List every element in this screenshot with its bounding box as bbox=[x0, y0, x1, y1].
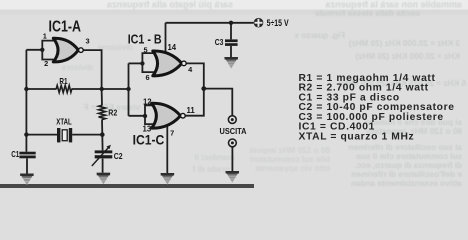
svg-text:mandoci il: mandoci il bbox=[195, 153, 236, 162]
svg-text:al suo oscillatore di riferime: al suo oscillatore di riferimen bbox=[348, 143, 462, 152]
capacitor C1 bbox=[19, 152, 35, 159]
wire: IC1-C output riser bbox=[185, 89, 204, 116]
wire: IC1-A output to node bbox=[83, 50, 102, 89]
svg-text:2: 2 bbox=[44, 59, 48, 68]
svg-text:KHz = 20.000 KHz (20 MHz): KHz = 20.000 KHz (20 MHz) bbox=[355, 52, 460, 61]
ground under C3 bbox=[224, 57, 238, 69]
ground under C1 bbox=[20, 174, 34, 186]
svg-text:C2: C2 bbox=[114, 152, 123, 161]
NOR gate IC1-B (CD4001, pins 5,6,4) bbox=[153, 51, 186, 76]
node: XTAL right junction bbox=[100, 132, 105, 137]
ground under USCITA bbox=[225, 171, 239, 183]
wire: IC1-A input feed bbox=[26, 49, 42, 51]
ground under C2 bbox=[96, 173, 110, 185]
resistor R2 bbox=[99, 105, 106, 119]
svg-text:e dell'oscillatore di riferime: e dell'oscillatore di riferimen bbox=[351, 170, 462, 179]
svg-text:C3: C3 bbox=[215, 38, 224, 47]
terminal USCITA lower bbox=[229, 139, 237, 147]
terminal USCITA upper bbox=[228, 116, 236, 124]
ground pin7 bbox=[160, 173, 174, 185]
wire: IC1-C input bracket bbox=[145, 105, 157, 126]
svg-text:11: 11 bbox=[186, 106, 195, 115]
NOR gate IC1-A (CD4001, pins 1,2,3) bbox=[53, 38, 83, 62]
svg-text:XTAL = quarzo 1 MHz: XTAL = quarzo 1 MHz bbox=[299, 131, 415, 142]
node: R1 left junction bbox=[24, 87, 28, 91]
svg-text:7: 7 bbox=[170, 128, 174, 137]
node: XTAL left junction bbox=[24, 132, 28, 136]
svg-text:12: 12 bbox=[143, 98, 152, 107]
svg-text:sul commutatore che il suo: sul commutatore che il suo bbox=[356, 152, 462, 161]
svg-text:Fig. quarzo x: Fig. quarzo x bbox=[294, 31, 345, 40]
wire: IC1-A input bracket bbox=[42, 40, 57, 61]
node: IC1-A input junction bbox=[40, 48, 44, 52]
svg-text:R1: R1 bbox=[59, 77, 68, 86]
svg-text:XTAL: XTAL bbox=[56, 118, 72, 127]
capacitor C3 bbox=[225, 39, 238, 46]
svg-text:13: 13 bbox=[143, 125, 152, 134]
wire: pin7 ground drop bbox=[166, 126, 168, 173]
svg-text:IC1-C: IC1-C bbox=[133, 133, 165, 148]
IC1-B output inversion bubble bbox=[182, 61, 187, 66]
svg-text:3: 3 bbox=[86, 37, 90, 46]
svg-text:uscita dalla stessa formula: uscita dalla stessa formula bbox=[315, 9, 420, 18]
wire: B/C input vertical bbox=[128, 63, 130, 115]
wire: XTAL net bbox=[26, 134, 102, 136]
wire: left rail bbox=[25, 50, 27, 152]
wire: C2 drop bbox=[101, 135, 103, 173]
node: C3 supply junction bbox=[229, 21, 233, 25]
wire: IC1-B input bracket bbox=[142, 52, 157, 73]
wire: power rail bbox=[166, 22, 254, 24]
svg-text:sarà più legato alla frequenza: sarà più legato alla frequenza bbox=[106, 0, 233, 10]
wire: USCITA lower terminal to ground bbox=[231, 147, 233, 171]
svg-text:IC1-A: IC1-A bbox=[49, 18, 82, 35]
wire: IC1-B output bbox=[186, 63, 204, 88]
wire: C3 drop bbox=[230, 23, 232, 57]
svg-text:divisore: divisore bbox=[61, 63, 93, 72]
svg-text:3 KHz = 20.000 KHz (20 MHz): 3 KHz = 20.000 KHz (20 MHz) bbox=[348, 39, 460, 48]
svg-text:R2: R2 bbox=[108, 109, 117, 118]
svg-text:attivo essenzialmente andan: attivo essenzialmente andan bbox=[351, 179, 462, 188]
power terminal +5..15V bbox=[254, 18, 264, 28]
IC1-A output inversion bubble bbox=[79, 48, 84, 53]
NOR gate IC1-C (CD4001, pins 12,13,11) bbox=[152, 103, 186, 128]
node: B/C input tee junction bbox=[126, 87, 130, 91]
svg-text:6: 6 bbox=[146, 73, 150, 82]
svg-text:otto vio spyamente: otto vio spyamente bbox=[255, 164, 330, 173]
wire: pin14 supply drop bbox=[165, 23, 167, 53]
parts list bbox=[299, 73, 455, 142]
svg-text:grado di f: grado di f bbox=[192, 165, 230, 174]
resistor R1 bbox=[56, 85, 72, 92]
svg-text:IC1 - B: IC1 - B bbox=[128, 31, 162, 46]
svg-text:di frequenza di quarzo, ecc.: di frequenza di quarzo, ecc. bbox=[355, 161, 462, 170]
node: IC1-C input junction bbox=[143, 114, 147, 118]
svg-text:80 o 120 MHz impost: 80 o 120 MHz impost bbox=[249, 146, 330, 155]
wire: C1 drop bbox=[25, 152, 28, 174]
IC1-C output inversion bubble bbox=[181, 113, 186, 118]
svg-text:bile sul commutatori: bile sul commutatori bbox=[250, 155, 330, 164]
svg-text:5÷15 V: 5÷15 V bbox=[267, 17, 290, 28]
wire: R2 vertical bbox=[101, 89, 104, 135]
svg-text:1: 1 bbox=[43, 31, 47, 40]
wire: R1 horizontal net bbox=[26, 88, 128, 90]
bottom border line bbox=[0, 184, 254, 188]
svg-text:5: 5 bbox=[144, 46, 148, 55]
node: IC1-B input junction bbox=[140, 61, 144, 65]
svg-text:C1: C1 bbox=[11, 150, 19, 159]
node: R1 right / pin3 junction bbox=[100, 87, 104, 91]
svg-text:14: 14 bbox=[167, 43, 176, 52]
crystal XTAL bbox=[57, 128, 72, 142]
capacitor C2 (trimmer) bbox=[92, 145, 112, 166]
node: output junction bbox=[201, 86, 206, 91]
wire: IC1-B input feed bbox=[129, 62, 143, 64]
bleed-through ghost text bbox=[61, 0, 466, 188]
wire: output node to USCITA bbox=[204, 89, 233, 116]
svg-text:USCITA: USCITA bbox=[220, 127, 247, 136]
wire: IC1-C input feed bbox=[129, 115, 146, 117]
